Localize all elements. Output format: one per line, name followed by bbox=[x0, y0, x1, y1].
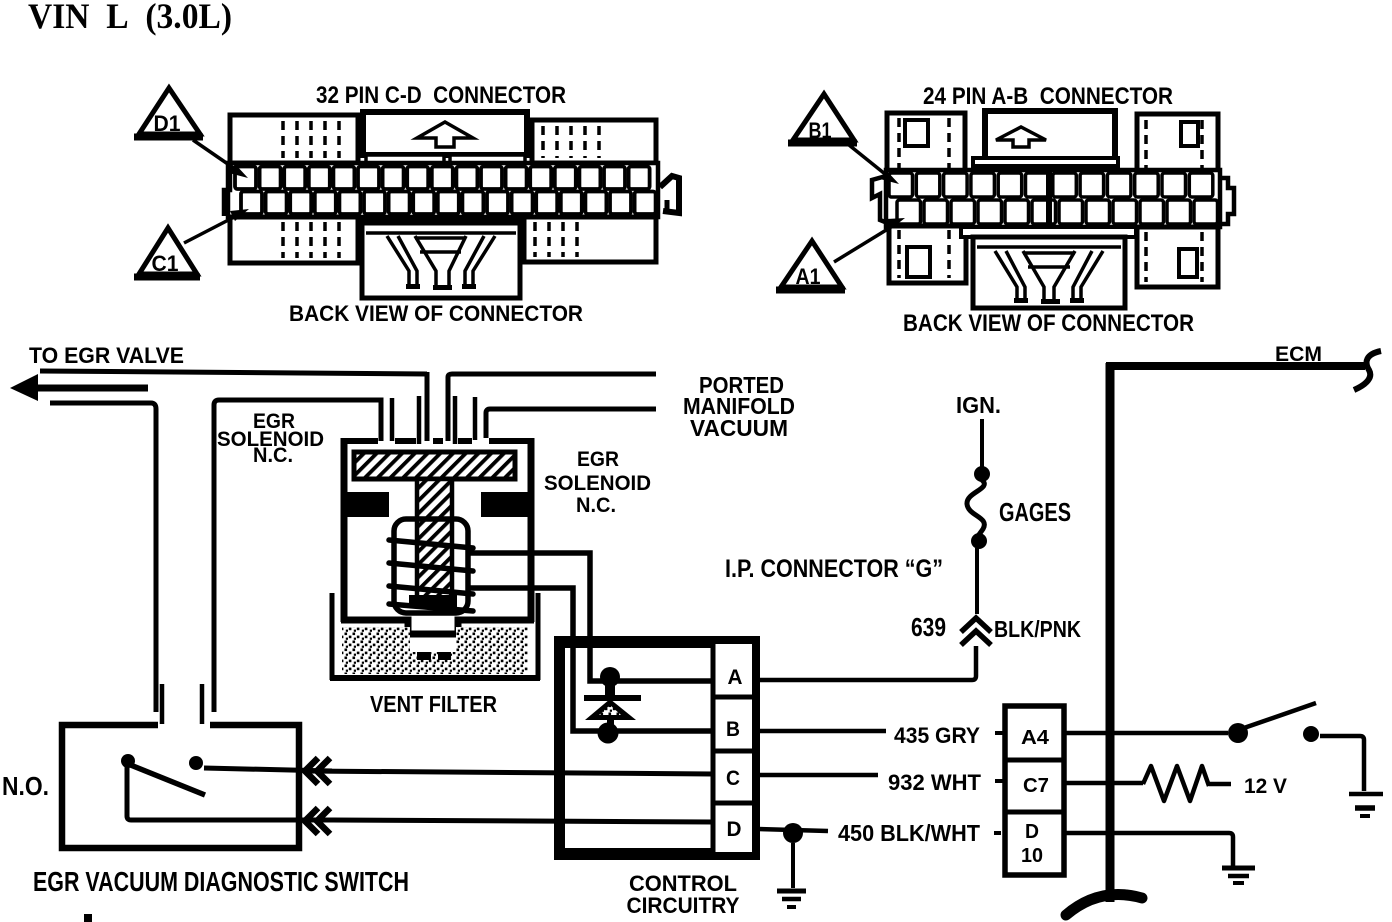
svg-text:B1: B1 bbox=[809, 118, 832, 143]
ground G2 bbox=[1349, 792, 1383, 797]
svg-text:BACK VIEW OF CONNECTOR: BACK VIEW OF CONNECTOR bbox=[289, 301, 583, 326]
callout triangle B1 bbox=[793, 94, 854, 140]
inline connector chevrons wire 639 bbox=[961, 618, 991, 645]
ECM boundary break squiggle bbox=[1354, 351, 1381, 390]
diode CR1 cathode bar bbox=[605, 685, 615, 697]
ECM boundary horizontal line bbox=[1106, 362, 1365, 370]
svg-text:932 WHT: 932 WHT bbox=[888, 770, 982, 795]
solenoid plunger stem (hatched) bbox=[417, 479, 452, 600]
connector J2 orientation arrow bbox=[996, 127, 1046, 147]
connector J2 upper-right block bbox=[1137, 114, 1218, 172]
svg-text:B: B bbox=[726, 718, 740, 741]
vent filter cup left wall bbox=[330, 593, 335, 680]
svg-text:I.P. CONNECTOR “G”: I.P. CONNECTOR “G” bbox=[725, 555, 943, 583]
inline connector chevrons on wire 932 bbox=[305, 758, 330, 784]
svg-text:D1: D1 bbox=[154, 111, 181, 136]
callout triangle C1 bbox=[139, 228, 197, 274]
wire 450 BLK/WHT from pin D bbox=[757, 829, 828, 831]
ECM boundary vertical line bbox=[1106, 363, 1115, 902]
connector J2 left latch bbox=[872, 176, 890, 224]
connector J2 strain relief bbox=[973, 237, 1125, 308]
connector J2 lower-left block bbox=[889, 226, 966, 283]
ported manifold vacuum tube upper line bbox=[448, 374, 656, 441]
wire from chevron down to pin A bbox=[757, 646, 976, 680]
fuse GAGES wavy element bbox=[967, 480, 984, 538]
connector J1 top-center block bbox=[363, 112, 527, 155]
svg-text:A: A bbox=[728, 666, 743, 689]
wire: coil top terminal to control circuitry A bbox=[468, 553, 713, 681]
wire from A4 to switch bbox=[1064, 731, 1228, 736]
connector J1 left edge step bbox=[224, 164, 230, 216]
wire from switch S2 to ground bbox=[1320, 736, 1364, 791]
tube to EGR valve: top line bbox=[40, 371, 427, 374]
connector J2 strain-relief bar bbox=[961, 227, 1136, 237]
solenoid coil winding turns bbox=[389, 540, 473, 548]
connector J1 right latch bbox=[660, 176, 679, 213]
vent filter port dashes bbox=[417, 652, 431, 660]
wire below fuse bbox=[975, 548, 979, 614]
svg-text:N.C.: N.C. bbox=[576, 494, 616, 517]
svg-text:C: C bbox=[726, 767, 740, 790]
wire D row through box bbox=[332, 820, 713, 822]
svg-text:VACUUM: VACUUM bbox=[690, 415, 788, 441]
solenoid pole piece right (black) bbox=[481, 492, 531, 517]
switch S2 left dot bbox=[1228, 723, 1248, 743]
connector J2 lower-right block bbox=[1137, 227, 1218, 287]
vent filter cup right wall bbox=[536, 593, 541, 680]
connector J1 pin row 2 bbox=[241, 192, 262, 215]
switch tube entry stubs into switch box bbox=[160, 684, 165, 724]
svg-text:24 PIN A-B CONNECTOR: 24 PIN A-B CONNECTOR bbox=[923, 83, 1173, 110]
EGR flow arrowhead bbox=[10, 374, 38, 401]
svg-text:BACK VIEW OF CONNECTOR: BACK VIEW OF CONNECTOR bbox=[903, 310, 1194, 337]
control circuitry inner border lines bbox=[563, 646, 711, 850]
wire from IGN down bbox=[980, 419, 984, 467]
solenoid L1 body top edge bbox=[341, 438, 534, 444]
connector J2 pin band outline bbox=[886, 170, 1220, 227]
svg-text:C7: C7 bbox=[1023, 775, 1049, 797]
connector J1 pin row 1 bbox=[235, 167, 256, 190]
EGR vacuum diagnostic switch S1 box bbox=[62, 725, 299, 848]
svg-text:TO EGR VALVE: TO EGR VALVE bbox=[29, 343, 184, 368]
svg-text:N.O.: N.O. bbox=[2, 771, 49, 801]
svg-text:VENT FILTER: VENT FILTER bbox=[370, 691, 497, 717]
ECM pin box stack bbox=[1005, 706, 1064, 875]
connector J1 sub-rect right bbox=[450, 155, 525, 164]
inline connector chevrons on wire 450 bbox=[305, 808, 330, 834]
solenoid armature plate (hatched) bbox=[354, 452, 515, 479]
wire 932 WHT from pin C bbox=[757, 773, 878, 778]
connector J1 lower-right block bbox=[524, 217, 656, 262]
leader arrow from A1 to pin A row bbox=[834, 224, 896, 262]
pin cell dividers bbox=[711, 695, 757, 700]
control circuitry U1 box bbox=[558, 640, 756, 856]
wire C row through box bbox=[305, 771, 713, 774]
connector J2 upper-left block bbox=[887, 113, 965, 172]
svg-text:D: D bbox=[1025, 821, 1039, 843]
svg-text:IGN.: IGN. bbox=[956, 392, 1001, 418]
svg-text:EGR: EGR bbox=[577, 448, 619, 471]
svg-text:A4: A4 bbox=[1021, 727, 1050, 749]
junction dot on wire 450 bbox=[783, 823, 803, 843]
switch S1 left contact wire down and right bbox=[127, 766, 332, 820]
leader arrow from D1 to pin C row bbox=[193, 140, 238, 171]
fuse GAGES bottom dot bbox=[971, 533, 987, 549]
solenoid L1 body left wall bbox=[341, 438, 348, 622]
vent filter cup bottom bbox=[330, 675, 540, 681]
connector J1 strain relief bbox=[362, 223, 520, 298]
connector J2 pin row 1 bbox=[889, 173, 913, 197]
switch S2 right dot bbox=[1303, 726, 1319, 742]
diode CR1 top junction dot bbox=[600, 667, 620, 687]
svg-text:BLK/PNK: BLK/PNK bbox=[994, 616, 1081, 642]
ECM boundary bottom hook bbox=[1066, 894, 1142, 915]
connector J1 pin band outline bbox=[228, 163, 658, 217]
connector J2 right latch bbox=[1220, 178, 1234, 224]
callout triangle A1 bbox=[781, 241, 842, 287]
svg-text:10: 10 bbox=[1021, 845, 1043, 867]
solenoid pole piece left (black) bbox=[346, 492, 389, 517]
diode CR1 anode triangle bbox=[585, 699, 636, 720]
page mark bottom-left bbox=[84, 914, 92, 922]
solenoid top port stubs bbox=[390, 398, 395, 441]
switch S1 right contact dot bbox=[189, 756, 203, 770]
fuse GAGES top dot bbox=[974, 466, 990, 482]
connector J1 orientation arrow bbox=[417, 122, 473, 147]
switch S1 right contact wire bbox=[204, 768, 332, 771]
connector J2 bar below center block bbox=[973, 158, 1118, 166]
switch tube right wall turning right toward solenoid bbox=[214, 400, 381, 712]
connector J1 lower-left block bbox=[230, 217, 358, 263]
svg-text:GAGES: GAGES bbox=[999, 497, 1071, 527]
svg-text:N.C.: N.C. bbox=[253, 444, 293, 467]
solenoid L1 body bottom edge bbox=[341, 620, 534, 634]
connector J1 upper-left block bbox=[230, 115, 358, 163]
svg-text:A1: A1 bbox=[796, 264, 821, 289]
leader arrow from B1 to pin B row bbox=[849, 145, 890, 178]
switch S1 left contact dot bbox=[121, 754, 135, 768]
tube bottom-left line turning down into switch tube left wall bbox=[50, 403, 156, 712]
wire 435 GRY from pin B bbox=[757, 729, 886, 734]
solenoid plunger end cap (black) bbox=[409, 595, 457, 607]
switch S2 blade bbox=[1241, 703, 1316, 729]
wire from C7 to resistor bbox=[1064, 781, 1143, 786]
svg-text:EGR VACUUM DIAGNOSTIC SWITCH: EGR VACUUM DIAGNOSTIC SWITCH bbox=[33, 866, 409, 897]
ported manifold vacuum tube lower line bbox=[486, 409, 656, 438]
svg-text:SOLENOID: SOLENOID bbox=[544, 472, 651, 495]
svg-text:639: 639 bbox=[911, 612, 946, 642]
EGR flow arrow shaft bbox=[36, 385, 148, 392]
diode CR1 bottom junction dot bbox=[598, 723, 619, 744]
connector J2 pin row 2 bbox=[897, 200, 921, 224]
wire: coil bottom terminal to control circuitry B bbox=[468, 588, 713, 731]
svg-text:450 BLK/WHT: 450 BLK/WHT bbox=[838, 820, 980, 846]
svg-text:C1: C1 bbox=[152, 251, 179, 276]
solenoid L1 body right wall bbox=[528, 438, 535, 622]
wire from D10 to ground bbox=[1064, 833, 1233, 866]
resistor R1 bbox=[1143, 766, 1209, 801]
callout triangle D1 bbox=[139, 88, 200, 134]
svg-text:12 V: 12 V bbox=[1244, 775, 1287, 798]
connector J1 sub-rect left bbox=[366, 155, 444, 164]
connector J1 strain-relief bar bbox=[358, 220, 524, 231]
svg-text:VIN L (3.0L): VIN L (3.0L) bbox=[28, 0, 232, 36]
connector J2 center divider bbox=[1046, 172, 1052, 225]
connector J1 upper-right block bbox=[532, 120, 656, 163]
ground G1 bbox=[777, 889, 806, 894]
svg-text:435 GRY: 435 GRY bbox=[894, 723, 980, 748]
leader arrow from C1 to pin row 2 bbox=[184, 214, 240, 243]
ground G3 bbox=[1222, 866, 1255, 871]
pin column wall bbox=[711, 640, 716, 856]
solenoid coil bobbin bbox=[394, 519, 468, 613]
switch S1 blade bbox=[128, 764, 205, 795]
connector J2 top-center block bbox=[985, 111, 1115, 159]
svg-text:CIRCUITRY: CIRCUITRY bbox=[627, 893, 740, 918]
vent filter media (stippled) bbox=[342, 627, 528, 674]
wire from junction dot down to ground bbox=[791, 843, 795, 888]
svg-text:D: D bbox=[727, 818, 742, 841]
svg-text:32 PIN C-D CONNECTOR: 32 PIN C-D CONNECTOR bbox=[316, 82, 566, 109]
